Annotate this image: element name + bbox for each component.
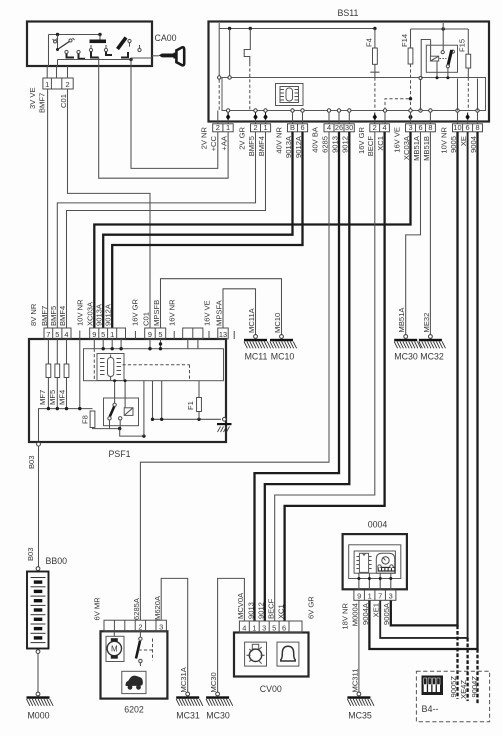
svg-text:F1: F1 <box>186 401 195 410</box>
svg-text:B: B <box>290 123 295 132</box>
svg-text:13: 13 <box>219 330 227 339</box>
svg-text:MC31A: MC31A <box>179 666 188 692</box>
wire to key <box>131 57 152 59</box>
PSF1 internal ground <box>223 418 227 422</box>
svg-text:+CC: +CC <box>209 135 218 151</box>
svg-text:M000: M000 <box>27 711 49 721</box>
relay K <box>420 23 458 79</box>
wire 9012A (thick) <box>112 132 302 328</box>
svg-text:XC03A: XC03A <box>86 301 95 326</box>
g6 g7 rail terminals <box>409 109 412 112</box>
svg-text:M: M <box>111 645 118 654</box>
svg-text:+AA: +AA <box>220 135 229 150</box>
svg-text:6: 6 <box>300 123 304 132</box>
svg-text:7: 7 <box>46 330 50 339</box>
svg-text:9013A: 9013A <box>95 303 104 326</box>
svg-text:CV00: CV00 <box>260 684 282 694</box>
BS11 connector group 4 (40V BA) <box>324 124 354 132</box>
svg-text:0004: 0004 <box>368 520 388 530</box>
svg-text:XE1: XE1 <box>372 603 381 617</box>
switch contact 2 <box>89 40 112 58</box>
B03 exit <box>37 442 41 446</box>
shunt step wire <box>244 29 250 64</box>
wire BMF4 <box>67 132 266 328</box>
svg-text:BMF5: BMF5 <box>247 136 256 156</box>
svg-text:16V GR: 16V GR <box>131 298 140 326</box>
6202 car icon <box>122 671 146 693</box>
PSF1 pin 13 <box>218 328 228 339</box>
top bus 2 (F14-relay-F15) <box>411 28 469 30</box>
svg-text:5: 5 <box>272 624 276 633</box>
svg-text:3: 3 <box>159 623 163 632</box>
svg-text:M620A: M620A <box>153 595 162 620</box>
svg-text:B03: B03 <box>26 547 35 561</box>
svg-text:MC31: MC31 <box>176 711 200 721</box>
svg-text:4: 4 <box>242 624 246 633</box>
svg-text:10: 10 <box>453 123 461 132</box>
fuse F14 <box>400 29 413 122</box>
0004 inner frame <box>349 545 401 579</box>
svg-text:9: 9 <box>357 592 361 601</box>
wire MB51B/ME32 <box>429 132 431 335</box>
0004 connector <box>354 590 396 600</box>
svg-text:BMF7: BMF7 <box>40 306 49 326</box>
svg-text:ME32: ME32 <box>422 313 431 333</box>
wire: internal bottom bus <box>58 59 132 61</box>
svg-text:1: 1 <box>263 123 267 132</box>
fuse F4 <box>365 29 380 122</box>
svg-text:MC32: MC32 <box>420 352 444 362</box>
svg-text:2V NR: 2V NR <box>200 126 209 149</box>
svg-text:5: 5 <box>158 330 162 339</box>
wire 9005 / 9005A (thick) <box>391 132 458 626</box>
dashed XE4Z <box>466 638 468 701</box>
BS11 internal rail box <box>222 78 486 111</box>
ground M000 <box>36 692 40 696</box>
svg-text:MF4: MF4 <box>57 390 66 405</box>
dashed 9004Z <box>476 649 478 704</box>
wire M0004 <box>358 600 360 692</box>
svg-text:6285: 6285 <box>320 136 329 153</box>
svg-text:6V GR: 6V GR <box>307 596 316 619</box>
svg-text:2V GR: 2V GR <box>238 126 247 149</box>
svg-text:1: 1 <box>368 592 372 601</box>
svg-text:2: 2 <box>253 123 257 132</box>
switch contact 3 <box>118 38 142 58</box>
svg-text:3: 3 <box>389 592 393 601</box>
BMF5 BMF4 rail terminals <box>254 109 257 112</box>
svg-text:XC1: XC1 <box>276 604 285 619</box>
BS11 box <box>209 22 490 122</box>
svg-text:BB00: BB00 <box>46 556 68 566</box>
wire: internal top bus <box>49 34 101 36</box>
pin stubs/ticks <box>80 331 234 340</box>
svg-text:MB51B: MB51B <box>422 136 431 161</box>
dashed 9005Z <box>456 625 458 699</box>
svg-text:9012A: 9012A <box>104 303 113 326</box>
PSF1 inner module box <box>84 349 224 381</box>
svg-text:3: 3 <box>262 624 266 633</box>
fuse F1 <box>186 381 202 420</box>
0004 box <box>343 534 407 589</box>
svg-text:MC11: MC11 <box>245 352 268 362</box>
wire MPSFA / MC11A <box>223 289 256 335</box>
svg-text:BMF5: BMF5 <box>49 306 58 326</box>
svg-text:2: 2 <box>216 123 220 132</box>
svg-text:BMF4: BMF4 <box>257 136 266 156</box>
CV00 connector <box>239 621 302 633</box>
wire XC03A (thick) <box>94 132 410 328</box>
wire 9013A (thick) <box>103 132 292 328</box>
BS11 connector group 5 (16V GR) <box>370 124 390 132</box>
svg-text:PSF1: PSF1 <box>108 449 130 459</box>
svg-text:XE4Z: XE4Z <box>459 680 468 699</box>
svg-text:C01: C01 <box>59 94 68 108</box>
svg-text:MPSFB: MPSFB <box>152 300 161 326</box>
svg-text:9005Z: 9005Z <box>449 676 458 698</box>
wire XE / XE1 (thick) <box>380 132 467 638</box>
relay in PSF1 <box>104 379 146 438</box>
motor M <box>106 631 124 661</box>
svg-text:MB51A: MB51A <box>397 307 406 333</box>
BS11 connector group 6 (16V VE) <box>406 124 436 132</box>
svg-text:5: 5 <box>55 330 59 339</box>
svg-text:1: 1 <box>110 330 114 339</box>
inner stubs <box>94 339 198 349</box>
svg-text:6: 6 <box>466 123 470 132</box>
wire 9004 / 9004A (thick) <box>369 132 477 649</box>
svg-text:7: 7 <box>378 592 382 601</box>
BS11 connector group 1 (2V NR) <box>213 124 234 132</box>
svg-text:6V MR: 6V MR <box>93 597 102 621</box>
svg-text:3: 3 <box>408 123 412 132</box>
PSF1 right bus + F1 <box>153 381 162 420</box>
svg-text:F15: F15 <box>458 39 467 52</box>
svg-text:MB51A: MB51A <box>412 135 421 161</box>
svg-text:B03: B03 <box>27 455 36 469</box>
dashed interior <box>93 349 95 381</box>
ground MC32 <box>429 335 433 339</box>
svg-text:MF7: MF7 <box>38 390 47 405</box>
svg-text:BECF: BECF <box>267 598 276 619</box>
6202 connector <box>104 620 166 631</box>
svg-text:10V NR: 10V NR <box>76 299 85 326</box>
wire M620A <box>161 578 188 692</box>
9013A 9012A rail terminals <box>291 109 294 112</box>
svg-text:9: 9 <box>148 330 152 339</box>
battery BB00 <box>27 567 49 692</box>
svg-text:16V NR: 16V NR <box>168 299 177 326</box>
wire +AA <box>99 66 228 178</box>
svg-text:MC10: MC10 <box>271 352 295 362</box>
wire MCV0A <box>218 578 245 692</box>
svg-text:16V VE: 16V VE <box>393 127 402 153</box>
svg-text:MCV0A: MCV0A <box>236 592 245 619</box>
svg-text:1: 1 <box>226 123 230 132</box>
BS11 top bus <box>219 28 375 30</box>
wire 6285 <box>140 132 329 620</box>
svg-text:MC10: MC10 <box>273 313 282 333</box>
svg-text:MC11A: MC11A <box>247 307 256 333</box>
PSF1 pins 9 5 1 . <box>90 328 126 339</box>
fuse MF5 <box>48 339 60 409</box>
svg-text:2: 2 <box>65 80 69 89</box>
0004 gauge <box>376 553 395 573</box>
PSF1 pins blank <box>183 328 203 339</box>
wire: lever feeds <box>48 35 50 67</box>
svg-text:BMF7: BMF7 <box>37 93 46 113</box>
svg-text:MF5: MF5 <box>48 390 57 405</box>
svg-text:MPSFA: MPSFA <box>214 299 223 326</box>
wire +CC internal <box>218 80 220 111</box>
BS11 connector group 3 (40V NR) <box>288 124 308 132</box>
svg-text:2: 2 <box>373 123 377 132</box>
svg-text:M0004: M0004 <box>350 603 359 626</box>
svg-text:40V BA: 40V BA <box>311 126 320 153</box>
svg-text:MC35: MC35 <box>348 711 372 721</box>
svg-text:F14: F14 <box>400 34 409 47</box>
svg-text:BMF4: BMF4 <box>58 306 67 326</box>
svg-text:9: 9 <box>92 330 96 339</box>
wire B03 <box>38 446 40 566</box>
svg-text:4: 4 <box>64 330 68 339</box>
CV00 lamp icon <box>245 642 267 666</box>
wire +AA internal <box>229 29 231 77</box>
PSF1 chip <box>97 354 124 381</box>
wire MPSFB <box>161 279 282 335</box>
svg-text:6285A: 6285A <box>132 597 141 620</box>
svg-text:9005A: 9005A <box>382 602 391 625</box>
svg-text:18V NR: 18V NR <box>341 602 350 629</box>
svg-text:9004Z: 9004Z <box>470 676 479 698</box>
wire +CC <box>131 66 218 168</box>
svg-text:26: 26 <box>335 123 343 132</box>
svg-text:1: 1 <box>252 624 256 633</box>
stub pin wire <box>79 339 81 409</box>
B4 dashed box <box>416 671 489 722</box>
wire C01 <box>68 89 151 328</box>
svg-text:MC30: MC30 <box>206 711 230 721</box>
svg-text:6: 6 <box>418 123 422 132</box>
fuse F15 <box>458 29 471 122</box>
svg-text:5: 5 <box>101 330 105 339</box>
PSF1 box <box>29 339 226 442</box>
svg-text:B4--: B4-- <box>422 704 439 714</box>
CV00 bell icon <box>277 642 299 666</box>
svg-text:BECF: BECF <box>366 136 375 157</box>
svg-text:10V NR: 10V NR <box>440 126 449 153</box>
svg-text:16V GR: 16V GR <box>357 126 366 154</box>
wire BECF <box>275 132 375 621</box>
BS11 connector group 7 (10V NR) <box>453 124 483 132</box>
0004 pin stubs <box>359 573 391 590</box>
grounds MC31 MC30 <box>186 692 190 696</box>
wire XC1 (thick) <box>285 132 385 621</box>
switch contact 1 <box>53 38 86 59</box>
svg-text:4: 4 <box>327 123 331 132</box>
svg-text:1: 1 <box>45 80 49 89</box>
6202 switch <box>136 631 153 666</box>
svg-text:MC311: MC311 <box>350 669 359 693</box>
svg-text:C01: C01 <box>141 312 150 326</box>
6202 box <box>101 631 168 698</box>
fuse F8 <box>80 411 119 429</box>
BS11 connector group 2 (2V GR) <box>251 124 271 132</box>
wire BMF5 <box>57 132 255 328</box>
svg-text:8: 8 <box>475 123 479 132</box>
svg-text:3V VE: 3V VE <box>28 87 37 109</box>
BS11 internal chip <box>276 84 304 106</box>
svg-text:9004A: 9004A <box>361 602 370 625</box>
svg-text:9013: 9013 <box>246 602 255 619</box>
svg-text:8: 8 <box>428 123 432 132</box>
PSF1 pins 9 5 <box>145 328 166 339</box>
PSF1 bus B03 <box>39 409 93 441</box>
ground MC11 <box>254 335 258 339</box>
svg-text:40V NR: 40V NR <box>275 126 284 153</box>
svg-text:F8: F8 <box>80 415 89 424</box>
svg-text:CA00: CA00 <box>155 33 177 43</box>
fuse MF7 <box>38 339 51 409</box>
DIP switch icon <box>422 676 444 696</box>
svg-text:16V VE: 16V VE <box>203 300 212 326</box>
PSF1 pins 7 5 4 <box>44 328 71 339</box>
g4 rail terminals <box>327 109 330 112</box>
wire MB51A <box>406 132 421 335</box>
svg-text:MC30: MC30 <box>394 352 418 362</box>
svg-text:4: 4 <box>382 123 386 132</box>
svg-text:9012: 9012 <box>257 602 266 619</box>
ignition switch box CA00 <box>27 22 152 67</box>
svg-text:2: 2 <box>138 623 142 632</box>
svg-text:MC30: MC30 <box>209 672 218 692</box>
svg-text:6202: 6202 <box>124 705 144 715</box>
ground MC30 (right) <box>404 335 408 339</box>
svg-text:8V NR: 8V NR <box>29 303 38 326</box>
svg-text:30: 30 <box>345 123 353 132</box>
svg-text:F4: F4 <box>365 38 374 47</box>
CV00 box <box>234 633 309 677</box>
svg-text:6: 6 <box>282 624 286 633</box>
ground MC10 <box>280 335 284 339</box>
wire 9013 (thick) <box>255 132 340 621</box>
0004 chip <box>356 553 371 572</box>
fuse MF4 <box>57 339 69 409</box>
XC1 dashed feed <box>385 99 411 111</box>
ignition connector C01 <box>43 78 73 89</box>
svg-text:BS11: BS11 <box>338 8 359 18</box>
wire 9012 (thick) <box>265 132 350 621</box>
ground MC35 <box>357 692 361 696</box>
wire BMF7 <box>47 89 49 328</box>
